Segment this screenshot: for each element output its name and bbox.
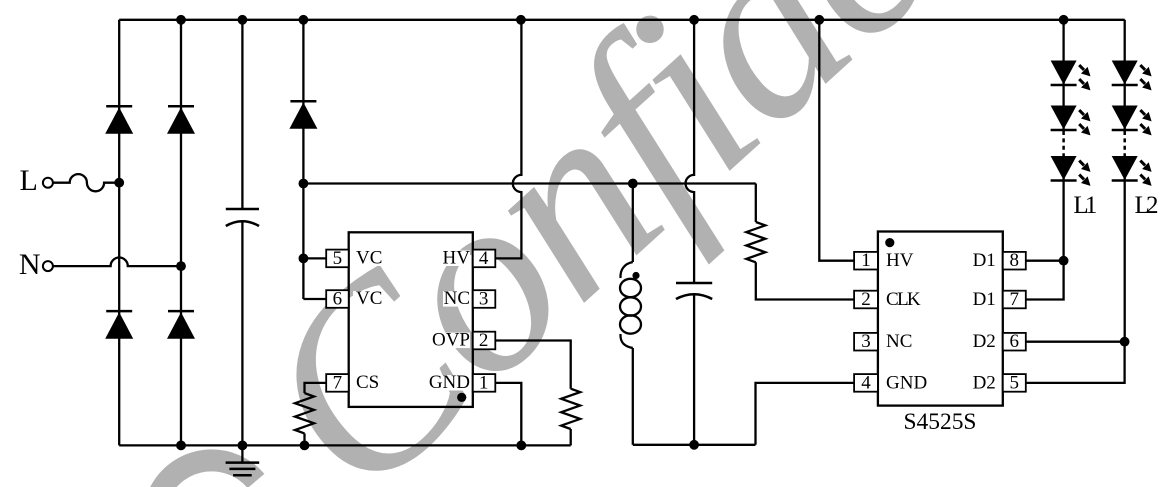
svg-text:GND: GND: [429, 372, 470, 393]
watermark second-row letter fragment: [160, 460, 256, 487]
diode D4 bridge lower-left: [105, 311, 133, 339]
inductor loop 1: [620, 279, 641, 297]
svg-text:2: 2: [479, 330, 489, 351]
svg-text:L2: L2: [1135, 192, 1159, 219]
U2 pin 2 box: [854, 289, 878, 310]
svg-text:GND: GND: [886, 372, 927, 393]
svg-text:CS: CS: [356, 372, 379, 393]
inductor loop 2: [620, 297, 641, 315]
U1 label VC pin5: [353, 248, 382, 269]
svg-text:D2: D2: [973, 372, 996, 393]
svg-text:1: 1: [861, 250, 871, 271]
svg-text:6: 6: [333, 288, 343, 309]
node bottom at R-CS: [300, 441, 310, 451]
node bottom at GND1 riser: [516, 441, 526, 451]
wire C2 lower lead: [693, 293, 695, 445]
U1 label NC: [443, 288, 470, 309]
wire L-branch vertical: [118, 20, 120, 446]
resistor R-OVP: [561, 389, 580, 429]
LED L2-1: [1112, 61, 1138, 86]
wire CS pin to resistor: [305, 383, 327, 393]
wire inductor lower lead: [632, 348, 634, 445]
capacitor C1: [226, 209, 259, 226]
U2 pin 7 box: [1003, 289, 1026, 310]
inductor loop 3: [620, 315, 641, 333]
U2 pin 1 box: [854, 250, 878, 271]
wire inductor upper lead: [632, 184, 634, 263]
U1 pin 6 box: [326, 288, 349, 309]
wire stub to pin 6: [303, 298, 326, 300]
LED L2-3: [1112, 156, 1138, 181]
U2 pin1 indicator dot: [885, 238, 894, 247]
node top bus at C2: [689, 15, 699, 25]
U2 pin 6 box: [1003, 331, 1026, 352]
terminal L: [20, 164, 53, 197]
svg-text:L1: L1: [1073, 192, 1097, 219]
wire main bottom rail: [119, 444, 571, 446]
svg-text:8: 8: [1010, 250, 1020, 271]
svg-text:1: 1: [479, 372, 489, 393]
node rail at D3 branch: [299, 179, 309, 189]
wire pin 8 to L1 node: [1026, 260, 1064, 262]
wire pin 6 to L2 node: [1026, 341, 1125, 343]
svg-text:S4525S: S4525S: [904, 409, 977, 435]
wire resistor R2 to CLK pin 2: [756, 262, 854, 299]
wire C2 riser with hop: [686, 20, 695, 283]
U1 pin1 indicator dot: [457, 393, 466, 402]
wire L2 string lower: [1124, 156, 1126, 342]
wire pin 7 up to L1 node: [1026, 261, 1064, 300]
svg-text:4: 4: [479, 248, 489, 269]
wire resistor R-OVP to bottom: [570, 429, 572, 445]
op-amp U1 body: [349, 232, 473, 407]
LED L1-3 arrows: [1079, 161, 1090, 186]
LED L2-1 arrows: [1140, 65, 1151, 90]
wire L1 string upper: [1062, 20, 1064, 130]
U1 label HV: [443, 248, 471, 269]
wire top bus: [119, 19, 1124, 21]
svg-text:NC: NC: [444, 288, 470, 309]
fuse F1 on L input: [53, 174, 119, 191]
svg-text:L: L: [20, 164, 38, 197]
U2 pin 5 box: [1003, 372, 1026, 393]
LED L1-2 arrows: [1079, 110, 1090, 135]
wire GND pin 4 to secondary bottom: [756, 383, 855, 445]
LED L2-2 arrows: [1140, 110, 1151, 135]
terminal N: [19, 248, 53, 281]
wire D3 branch vertical: [302, 20, 304, 299]
svg-text:7: 7: [333, 372, 343, 393]
U1 label VC pin6: [353, 288, 382, 309]
node top bus at C1: [238, 15, 248, 25]
svg-text:NC: NC: [886, 331, 912, 352]
U1 pin 5 box: [326, 248, 349, 269]
wire rail to resistor R2: [755, 184, 757, 223]
wire HV2 riser to pin 1: [819, 20, 854, 261]
wire HV riser with hop to pin 4: [495, 20, 522, 259]
LED L1-1: [1051, 61, 1077, 86]
wire N-branch vertical: [180, 20, 182, 446]
U1 pin 1 box: [473, 372, 496, 393]
wire C1 upper lead: [241, 20, 243, 209]
node bottom at N branch: [176, 441, 186, 451]
node bottom at ground: [238, 441, 248, 451]
node top bus at D3: [299, 15, 309, 25]
svg-text:2: 2: [861, 289, 871, 310]
U1 label CS: [353, 372, 379, 393]
node secondary bottom at C2: [689, 440, 699, 450]
svg-text:6: 6: [1010, 331, 1020, 352]
wire pin 5 up to L2 node: [1026, 342, 1125, 383]
svg-text:5: 5: [333, 248, 343, 269]
U2 pin 4 box: [854, 372, 878, 393]
node D2 outputs join: [1120, 337, 1130, 347]
U1 pin 7 box: [326, 372, 349, 393]
U2 pin 3 box: [854, 331, 878, 352]
wire stub to pin 5: [303, 257, 326, 259]
node pin 5 branch: [299, 254, 309, 264]
inductor coil top arc: [620, 262, 632, 278]
resistor R2: [746, 222, 765, 262]
diode D5 bridge lower-right: [167, 311, 195, 339]
wire GND pin 1 to bottom: [495, 383, 522, 446]
label L2: [1132, 192, 1161, 219]
wire C1 lower lead: [241, 221, 243, 445]
wire OVP pin to resistor: [495, 341, 571, 389]
node N junction: [176, 261, 186, 271]
svg-text:N: N: [19, 248, 41, 281]
svg-text:7: 7: [1010, 289, 1020, 310]
svg-text:D1: D1: [973, 289, 996, 310]
wire L2 string dashed: [1123, 131, 1126, 156]
wire resistor R-CS to bottom: [303, 433, 305, 445]
wire L1 string lower: [1062, 156, 1064, 261]
IC U2 body: [878, 232, 1003, 406]
resistor R-CS: [295, 393, 314, 433]
wire N input with hop: [53, 258, 181, 267]
node top bus at L1: [1059, 15, 1069, 25]
inductor coil bottom arc: [620, 334, 632, 348]
diode D3: [289, 101, 317, 129]
svg-text:Confidential: Confidential: [205, 0, 1172, 487]
U1 label GND: [429, 372, 470, 393]
svg-text:D1: D1: [973, 250, 996, 271]
wire L2 string upper: [1124, 20, 1126, 130]
label L1: [1071, 192, 1100, 219]
svg-text:5: 5: [1010, 372, 1020, 393]
LED L2-3 arrows: [1140, 161, 1151, 186]
svg-text:OVP: OVP: [432, 330, 470, 351]
svg-text:3: 3: [479, 288, 489, 309]
node top bus at N branch: [176, 15, 186, 25]
LED L1-1 arrows: [1079, 65, 1090, 90]
svg-text:VC: VC: [356, 288, 382, 309]
svg-text:4: 4: [861, 372, 871, 393]
wire primary rail: [303, 182, 755, 184]
U2 pin 8 box: [1003, 250, 1026, 271]
LED L1-3: [1051, 156, 1077, 181]
inductor phase dot: [632, 272, 639, 279]
U1 pin 3 box: [473, 288, 496, 309]
U1 label OVP: [430, 330, 470, 351]
capacitor C2: [676, 283, 712, 299]
wire secondary bottom rail: [633, 444, 756, 446]
svg-text:VC: VC: [356, 248, 382, 269]
ground: [226, 445, 260, 475]
svg-text:3: 3: [861, 331, 871, 352]
node rail at inductor: [628, 179, 638, 189]
wire L1 string dashed: [1062, 131, 1065, 156]
diode D2 bridge upper-right: [167, 106, 195, 134]
U1 pin 4 box: [473, 248, 496, 269]
node top bus at HV riser: [516, 15, 526, 25]
node D1 outputs join: [1059, 256, 1069, 266]
svg-text:HV: HV: [886, 250, 914, 271]
LED L1-2: [1051, 106, 1077, 131]
svg-text:CLK: CLK: [886, 289, 921, 310]
diode D1 bridge upper-left: [105, 106, 133, 134]
U1 pin 2 box: [473, 330, 496, 351]
node L fuse junction: [114, 178, 124, 188]
svg-text:HV: HV: [443, 248, 471, 269]
LED L2-2: [1112, 106, 1138, 131]
svg-text:D2: D2: [973, 331, 996, 352]
node top bus at HV2 riser: [814, 15, 824, 25]
